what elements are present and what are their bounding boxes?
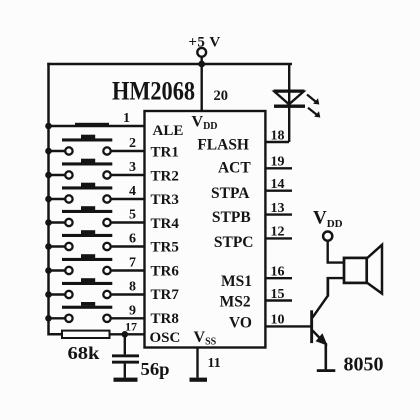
svg-text:7: 7 <box>129 256 136 271</box>
svg-text:1: 1 <box>123 111 130 126</box>
wire: speaker bottom lead <box>328 278 344 295</box>
svg-text:2: 2 <box>129 136 136 151</box>
wire: pin 16 stub <box>265 277 292 279</box>
svg-text:MS2: MS2 <box>220 293 251 310</box>
pushbutton S5 (TR5 pin 6) <box>45 230 144 250</box>
svg-text:17: 17 <box>125 320 137 334</box>
pushbutton S3 (TR3 pin 4) <box>45 183 144 203</box>
LED light arrow 1 <box>307 95 319 105</box>
svg-text:18: 18 <box>271 128 285 143</box>
capacitor C1 56p <box>112 334 139 377</box>
svg-text:VO: VO <box>229 314 252 331</box>
junction at VDD stem on rail <box>198 61 205 68</box>
pushbutton S6 (TR6 pin 7) <box>45 254 144 274</box>
svg-text:TR5: TR5 <box>151 240 179 256</box>
wire: VDD pin 20 drop to IC <box>200 64 202 111</box>
transistor Q1 8050 <box>310 278 328 369</box>
svg-text:+5 V: +5 V <box>188 35 220 51</box>
IC U1 HM2068 outline <box>145 111 266 348</box>
svg-text:8050: 8050 <box>344 355 384 376</box>
wire: ALE row (pin 1) <box>45 123 144 130</box>
svg-text:3: 3 <box>129 160 136 175</box>
svg-text:4: 4 <box>129 184 136 199</box>
svg-text:19: 19 <box>271 155 285 170</box>
wire: pin 18 stub <box>265 141 289 143</box>
svg-text:16: 16 <box>271 265 285 280</box>
ground (transistor emitter) <box>317 369 336 372</box>
junction node OSC <box>122 331 129 338</box>
VDD terminal (speaker supply) <box>323 232 332 263</box>
ground (capacitor) <box>114 378 138 382</box>
svg-text:TR7: TR7 <box>151 287 180 303</box>
LED D1 <box>274 64 306 142</box>
svg-text:8: 8 <box>129 280 136 295</box>
svg-text:MS1: MS1 <box>221 273 252 290</box>
svg-text:OSC: OSC <box>150 330 181 346</box>
svg-text:STPA: STPA <box>211 185 250 202</box>
wire: speaker top lead <box>327 261 345 263</box>
svg-text:TR4: TR4 <box>151 216 180 232</box>
svg-text:14: 14 <box>271 177 285 192</box>
svg-text:TR2: TR2 <box>151 168 179 184</box>
wire: VO pin 10 to transistor base <box>265 325 310 327</box>
svg-text:TR6: TR6 <box>151 263 180 279</box>
svg-text:11: 11 <box>208 356 221 371</box>
svg-text:ACT: ACT <box>218 159 251 176</box>
svg-text:HM2068: HM2068 <box>112 77 195 106</box>
svg-text:56p: 56p <box>141 359 170 379</box>
wire: top +5V rail <box>49 63 291 66</box>
LED light arrow 2 <box>308 108 320 118</box>
pushbutton S8 (TR8 pin 9) <box>45 302 144 322</box>
svg-text:TR8: TR8 <box>151 311 179 327</box>
svg-text:5: 5 <box>129 208 136 223</box>
svg-text:12: 12 <box>271 225 285 240</box>
svg-text:6: 6 <box>129 232 136 247</box>
svg-text:ALE: ALE <box>153 123 184 139</box>
svg-text:TR3: TR3 <box>151 192 179 208</box>
speaker LS1 <box>344 245 382 294</box>
resistor R1 68k <box>62 331 145 338</box>
svg-text:9: 9 <box>129 303 136 318</box>
svg-text:STPB: STPB <box>212 209 251 226</box>
wire: pin 12 stub <box>265 237 292 239</box>
wire: pin 14 stub <box>265 189 292 191</box>
wire: pin 15 stub <box>265 299 292 301</box>
pushbutton S4 (TR4 pin 5) <box>45 206 144 226</box>
svg-text:68k: 68k <box>68 343 100 363</box>
wire: left bus vertical <box>49 64 63 334</box>
pushbutton S2 (TR2 pin 3) <box>45 159 144 179</box>
pushbutton S7 (TR7 pin 8) <box>45 278 144 298</box>
+5V supply terminal <box>197 48 206 64</box>
ground (VSS) <box>190 378 208 382</box>
wire: pin 19 stub <box>265 167 292 169</box>
svg-text:10: 10 <box>271 313 285 328</box>
svg-text:FLASH: FLASH <box>197 136 249 153</box>
svg-text:13: 13 <box>271 201 285 216</box>
pushbutton S1 (TR1 pin 2) <box>45 135 144 155</box>
wire: pin 13 stub <box>265 213 292 215</box>
svg-text:TR1: TR1 <box>151 145 179 161</box>
svg-text:STPC: STPC <box>214 234 254 251</box>
svg-text:20: 20 <box>214 88 229 104</box>
wire: VSS pin 11 to ground <box>196 348 198 378</box>
svg-text:15: 15 <box>271 287 285 302</box>
